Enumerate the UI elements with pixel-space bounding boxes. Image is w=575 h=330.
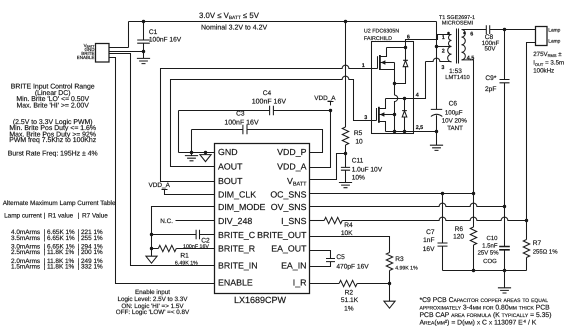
svg-text:N.C.: N.C. xyxy=(160,218,173,225)
svg-text:*C9 PCB Capacitor copper areas: *C9 PCB Capacitor copper areas to equal xyxy=(420,297,549,304)
svg-text:BRITE_OUT: BRITE_OUT xyxy=(257,230,307,240)
svg-text:GND: GND xyxy=(218,147,238,157)
svg-text:25V 5%: 25V 5% xyxy=(478,249,500,256)
svg-text:R7 Value: R7 Value xyxy=(82,213,108,220)
svg-text:1nF: 1nF xyxy=(423,237,434,244)
svg-text:R7: R7 xyxy=(533,240,542,247)
svg-text:BOUT: BOUT xyxy=(218,176,243,186)
svg-text:Area(mm²) = D(mm) x C x 11309: Area(mm²) = D(mm) x C x 113097 E-6 / K xyxy=(420,320,537,327)
svg-text:1.5mArms: 1.5mArms xyxy=(11,264,40,271)
svg-text:R4: R4 xyxy=(344,222,353,229)
svg-text:VDD_P: VDD_P xyxy=(277,147,306,157)
svg-text:C4: C4 xyxy=(263,90,272,97)
svg-text:Lamp current: Lamp current xyxy=(4,213,42,220)
svg-text:4: 4 xyxy=(416,92,419,98)
svg-text:I_R: I_R xyxy=(293,278,307,288)
svg-text:R1: R1 xyxy=(180,252,189,259)
svg-text:COG: COG xyxy=(483,258,497,265)
svg-text:R2: R2 xyxy=(345,289,354,296)
svg-text:R5: R5 xyxy=(354,130,363,137)
svg-text:EA_OUT: EA_OUT xyxy=(271,244,307,254)
svg-text:Burst Rate Freq: 195Hz ± 4%: Burst Rate Freq: 195Hz ± 4% xyxy=(8,151,98,158)
svg-text:TANT: TANT xyxy=(447,125,463,132)
svg-text:51.1K: 51.1K xyxy=(341,297,359,304)
svg-text:MICROSEMI: MICROSEMI xyxy=(442,20,473,26)
svg-text:3: 3 xyxy=(364,115,367,121)
svg-text:2: 2 xyxy=(442,48,445,54)
svg-text:Alternate Maximum Lamp Current: Alternate Maximum Lamp Current Table xyxy=(3,200,116,207)
svg-text:Lamp: Lamp xyxy=(548,28,560,34)
svg-text:DIV_248: DIV_248 xyxy=(218,216,252,226)
svg-text:10%: 10% xyxy=(352,175,365,182)
svg-text:C5: C5 xyxy=(336,254,345,261)
svg-text:Nominal 3.2V to 4.2V: Nominal 3.2V to 4.2V xyxy=(201,24,267,32)
svg-text:ENABLE: ENABLE xyxy=(218,278,253,288)
svg-text:6.49K 1%: 6.49K 1% xyxy=(175,260,198,266)
svg-text:BRITE_R: BRITE_R xyxy=(218,244,255,254)
svg-text:100µF: 100µF xyxy=(445,109,463,116)
svg-text:332 1%: 332 1% xyxy=(81,264,103,271)
svg-text:2pF: 2pF xyxy=(485,86,496,93)
svg-text:PCB CAP area formula (K typica: PCB CAP area formula (K typically = 5.35… xyxy=(420,312,552,319)
svg-text:C6: C6 xyxy=(449,101,458,108)
svg-text:1: 1 xyxy=(362,63,365,69)
svg-text:C11: C11 xyxy=(352,158,364,165)
svg-text:R1 value: R1 value xyxy=(48,213,74,220)
svg-text:1%: 1% xyxy=(344,306,354,313)
svg-text:VDD_A: VDD_A xyxy=(277,162,306,172)
svg-text:50V: 50V xyxy=(484,46,496,53)
svg-text:255Ω 1%: 255Ω 1% xyxy=(533,249,559,256)
svg-text:R3: R3 xyxy=(395,256,404,263)
svg-text:VDD_A: VDD_A xyxy=(314,95,336,102)
svg-text:1.5nF: 1.5nF xyxy=(482,242,498,249)
svg-text:6.65K 1%: 6.65K 1% xyxy=(47,235,75,242)
svg-text:OFF: Logic 'LOW' =< 0.8V: OFF: Logic 'LOW' =< 0.8V xyxy=(116,309,190,316)
svg-text:10: 10 xyxy=(355,139,363,146)
svg-text:120: 120 xyxy=(453,234,464,241)
svg-text:C1: C1 xyxy=(149,29,158,36)
svg-text:470pF 16V: 470pF 16V xyxy=(336,263,369,270)
svg-text:3.5mArms: 3.5mArms xyxy=(11,235,40,242)
svg-text:DIM_CLK: DIM_CLK xyxy=(218,190,256,200)
svg-text:6: 6 xyxy=(470,32,473,38)
svg-text:BRITE_C: BRITE_C xyxy=(218,230,256,240)
svg-text:approximately 3-4mm for 0.80mm: approximately 3-4mm for 0.80mm thick PCB xyxy=(420,305,551,312)
svg-text:C7: C7 xyxy=(426,229,435,236)
svg-text:2,5: 2,5 xyxy=(416,125,424,131)
svg-text:100nF 16V: 100nF 16V xyxy=(224,120,259,127)
svg-text:ENABLE: ENABLE xyxy=(77,55,95,60)
svg-text:Lamp: Lamp xyxy=(548,39,560,45)
svg-text:EA_IN: EA_IN xyxy=(281,260,306,270)
svg-text:LMT1410: LMT1410 xyxy=(445,74,470,81)
svg-text:FAIRCHILD: FAIRCHILD xyxy=(364,36,392,42)
svg-text:255 1%: 255 1% xyxy=(81,235,103,242)
svg-text:DIM_MODE: DIM_MODE xyxy=(218,202,266,212)
svg-text:LX1689CPW: LX1689CPW xyxy=(234,295,287,305)
svg-text:3: 3 xyxy=(441,65,444,71)
svg-text:OV_SNS: OV_SNS xyxy=(271,202,307,212)
svg-text:6: 6 xyxy=(407,35,410,41)
svg-text:16V: 16V xyxy=(423,246,435,253)
svg-text:AOUT: AOUT xyxy=(218,162,243,172)
svg-text:11.8K 1%: 11.8K 1% xyxy=(47,264,75,271)
svg-text:100nF 16V: 100nF 16V xyxy=(149,36,182,43)
svg-text:100nF 16V: 100nF 16V xyxy=(252,99,287,106)
svg-text:C10: C10 xyxy=(486,235,498,242)
svg-text:1.0uF 10V: 1.0uF 10V xyxy=(352,167,383,174)
svg-text:VDD_A: VDD_A xyxy=(149,182,171,189)
svg-text:C3: C3 xyxy=(236,111,245,118)
svg-text:200 1%: 200 1% xyxy=(81,249,103,256)
svg-text:11.8K 1%: 11.8K 1% xyxy=(47,249,75,256)
svg-text:U2 FDC6305N: U2 FDC6305N xyxy=(364,29,399,35)
svg-text:OC_SNS: OC_SNS xyxy=(270,190,306,200)
svg-text:BRITE_IN: BRITE_IN xyxy=(218,260,258,270)
svg-text:C9*: C9* xyxy=(485,75,496,82)
svg-text:I_SNS: I_SNS xyxy=(281,216,307,226)
svg-text:2.5mArms: 2.5mArms xyxy=(11,249,40,256)
svg-text:10V 20%: 10V 20% xyxy=(442,117,468,124)
svg-text:1: 1 xyxy=(442,35,445,41)
svg-text:100kHz: 100kHz xyxy=(533,67,554,74)
svg-text:4.99K 1%: 4.99K 1% xyxy=(395,265,418,271)
svg-text:R6: R6 xyxy=(455,226,464,233)
svg-text:PWM freq 7.5Khz to 100Khz: PWM freq 7.5Khz to 100Khz xyxy=(9,137,96,144)
svg-text:Max. Brite 'HI' >= 2.00V: Max. Brite 'HI' >= 2.00V xyxy=(17,103,90,110)
